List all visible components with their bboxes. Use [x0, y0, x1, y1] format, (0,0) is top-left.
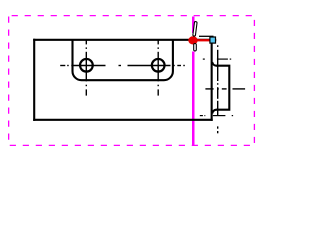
lower cursor capsule — [193, 45, 197, 50]
part outline: bottom edge — [33, 119, 213, 121]
boss main horizontal centerline — [205, 88, 245, 90]
boss top fillet arc — [212, 62, 216, 66]
red inference trace line — [197, 39, 210, 41]
selection border (magenta dashed rectangle) — [9, 16, 255, 146]
part outline: left edge — [33, 39, 35, 121]
marker black nub bar behind red line — [209, 39, 216, 41]
part outline: top edge — [33, 39, 213, 41]
boss outline (top edge, right edge, bottom edge) — [216, 66, 229, 110]
cyan vertex marker square — [210, 37, 216, 43]
bottom fillet horizontal centerline — [200, 115, 233, 117]
boss bottom fillet arc — [212, 110, 216, 114]
red drag point blob — [188, 36, 197, 44]
hole 1 vertical centerline — [85, 40, 87, 95]
top fillet horizontal centerline — [203, 58, 231, 60]
hole 2 vertical centerline — [157, 40, 159, 95]
main horizontal centerline through holes — [60, 65, 185, 67]
part outline: right end face edge — [211, 39, 213, 121]
tab pocket outline (left edge, bottom with fillets, right edge) — [73, 41, 173, 81]
hole 2 circle — [152, 59, 165, 72]
inference line (vertical magenta, lower segment) — [192, 52, 195, 146]
boss vertical centerline — [217, 45, 219, 133]
marker floating black line — [199, 35, 214, 37]
hole 1 circle — [80, 59, 93, 72]
upper cursor capsule — [194, 23, 196, 35]
inference line (vertical magenta, upper segment) — [192, 17, 195, 34]
